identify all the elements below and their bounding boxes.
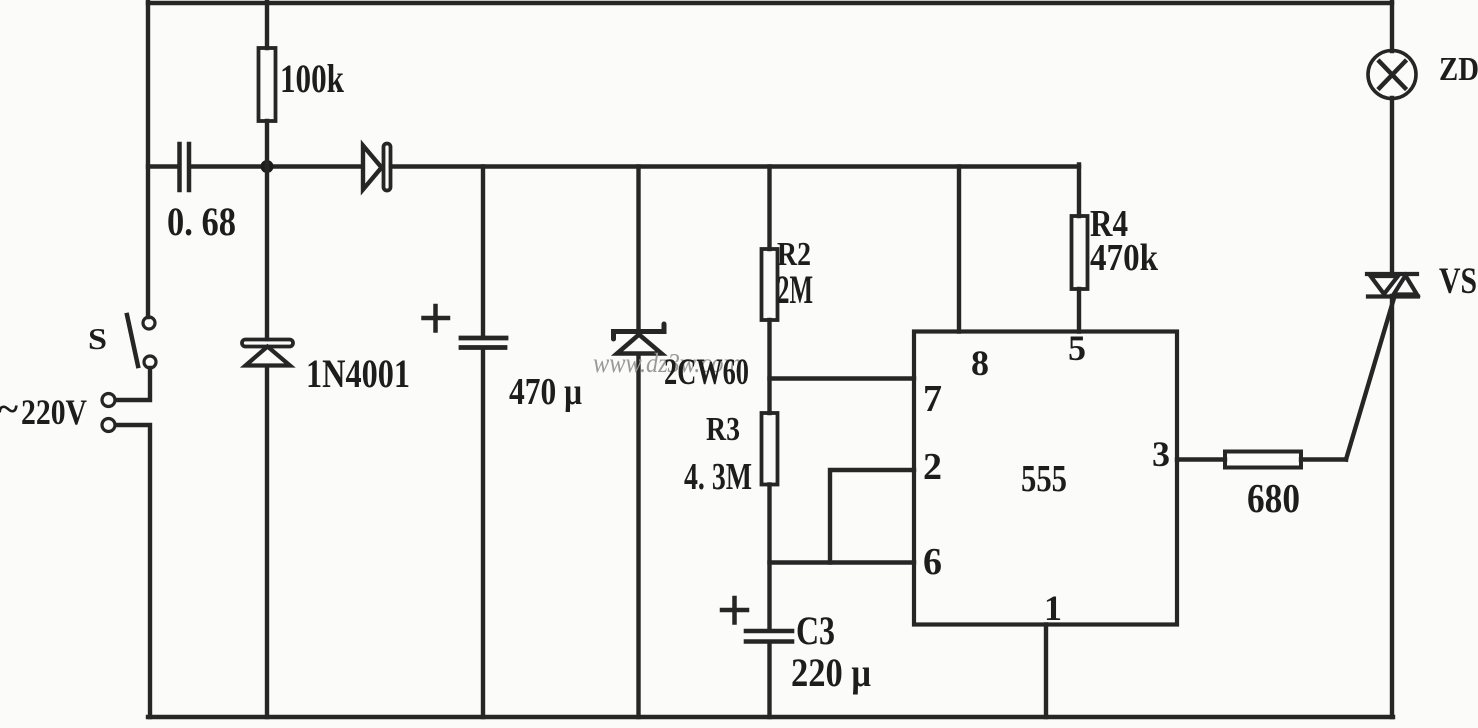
svg-text:470k: 470k xyxy=(1090,237,1159,279)
capacitor 0.68 xyxy=(180,144,190,190)
resistor R2 xyxy=(762,167,778,414)
wire lamp to triac xyxy=(1390,98,1394,275)
svg-text:0. 68: 0. 68 xyxy=(167,199,236,244)
wire pin1 ground xyxy=(1044,625,1048,718)
resistor 100k xyxy=(259,2,276,167)
svg-text:S: S xyxy=(88,321,107,356)
wire lower terminal to bottom rail xyxy=(116,425,150,717)
svg-text:VS: VS xyxy=(1439,261,1477,302)
svg-text:680: 680 xyxy=(1247,475,1300,521)
wire 680 to gate xyxy=(1301,457,1346,461)
zener 2CW60 xyxy=(614,167,665,718)
wire mid rail segment C xyxy=(391,164,1079,168)
svg-text:~: ~ xyxy=(0,389,18,429)
diode D1 (series rectifier) xyxy=(363,144,391,191)
svg-text:6: 6 xyxy=(923,541,942,583)
op-amp U1 555 box xyxy=(914,332,1177,625)
wire left rail xyxy=(146,2,150,317)
svg-text:2: 2 xyxy=(923,446,942,488)
resistor R4 xyxy=(1072,165,1088,332)
node junction dot xyxy=(261,160,274,173)
svg-text:220V: 220V xyxy=(21,392,87,432)
wire pin2 jumper xyxy=(830,470,914,563)
capacitor 470u xyxy=(424,167,507,718)
svg-text:100k: 100k xyxy=(280,56,345,101)
svg-text:4. 3M: 4. 3M xyxy=(684,456,752,498)
svg-text:8: 8 xyxy=(971,343,989,383)
wire mid rail segment A xyxy=(148,164,176,168)
wire pin6 xyxy=(770,560,915,564)
svg-text:2CW60: 2CW60 xyxy=(664,352,749,393)
wire pin8 supply xyxy=(957,167,961,332)
svg-text:R3: R3 xyxy=(706,411,740,448)
svg-text:C3: C3 xyxy=(796,608,835,653)
wire triac gate slant xyxy=(1346,298,1394,460)
svg-text:3: 3 xyxy=(1152,434,1170,474)
lamp ZD xyxy=(1368,51,1416,99)
svg-text:7: 7 xyxy=(923,378,942,420)
resistor R3 xyxy=(762,413,778,630)
wire top rail xyxy=(148,1,1392,5)
wire right rail upper xyxy=(1390,2,1394,51)
capacitor C3 xyxy=(722,598,792,717)
svg-text:ZD: ZD xyxy=(1439,51,1478,88)
svg-text:1N4001: 1N4001 xyxy=(306,351,410,396)
svg-text:220 μ: 220 μ xyxy=(791,650,871,695)
wire switch to terminals xyxy=(116,368,150,400)
diode 1N4001 xyxy=(242,167,293,718)
svg-text:1: 1 xyxy=(1044,588,1062,628)
node terminal lower xyxy=(102,419,115,432)
svg-text:5: 5 xyxy=(1068,328,1086,368)
wire mid rail segment B xyxy=(192,164,362,168)
wire pin3 xyxy=(1177,457,1225,461)
resistor 680 xyxy=(1225,452,1301,468)
transistor VS triac xyxy=(1367,274,1418,297)
svg-text:2M: 2M xyxy=(777,267,813,312)
wire pin7 xyxy=(770,376,915,380)
svg-text:470 μ: 470 μ xyxy=(509,371,582,413)
node terminal upper xyxy=(102,394,115,407)
wire right rail lower xyxy=(1390,296,1394,717)
svg-text:555: 555 xyxy=(1021,458,1067,500)
switch S xyxy=(127,315,156,368)
wire bottom rail xyxy=(148,715,1393,719)
